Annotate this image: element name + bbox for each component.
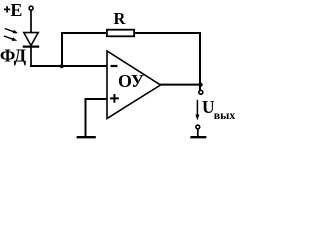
svg-text:E: E <box>10 0 22 20</box>
svg-text:вых: вых <box>214 110 236 122</box>
svg-text:ОУ: ОУ <box>118 71 144 91</box>
svg-text:ФД: ФД <box>0 45 27 65</box>
svg-text:R: R <box>114 9 127 28</box>
